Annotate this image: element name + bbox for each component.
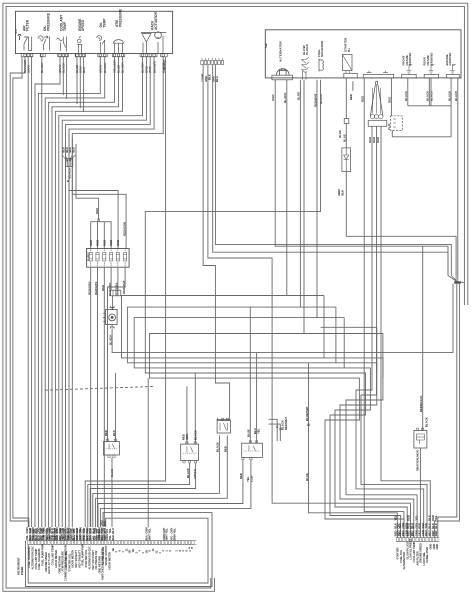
glow wire label	[297, 92, 301, 100]
svg-text:RED: RED	[95, 207, 99, 214]
wire J1 wrap labels	[99, 520, 106, 526]
connector J1 name	[17, 557, 24, 575]
svg-text:RED: RED	[271, 94, 275, 101]
svg-text:4: 4	[138, 550, 142, 552]
svg-text:RED/BLACK: RED/BLACK	[419, 396, 423, 412]
coolant temp sender label	[60, 15, 67, 31]
svg-text:BLK: BLK	[111, 535, 115, 541]
wire fuse out 6	[108, 267, 126, 295]
wire battery 4	[381, 126, 430, 537]
starter label	[344, 37, 351, 52]
svg-text:SWITCHED POWER FEED: SWITCHED POWER FEED	[101, 548, 105, 580]
wire route S3 east drop	[343, 318, 345, 368]
rack actuator black label	[162, 59, 166, 70]
wire relay A feed 1	[186, 386, 188, 444]
sensor wire color labels	[23, 60, 165, 73]
wire splice to diode	[345, 123, 347, 147]
wire coolant pin3	[66, 57, 68, 99]
wire cascade 7	[62, 57, 146, 527]
svg-text:BLUE: BLUE	[338, 130, 342, 138]
wire route S5	[150, 80, 405, 538]
starter splice label	[343, 134, 347, 142]
front frame ground plate	[402, 74, 417, 78]
wire starter plate stub	[352, 81, 354, 91]
low fuel out label	[415, 450, 419, 471]
svg-text:SPEED: SPEED	[81, 19, 85, 31]
fuse box label	[87, 252, 91, 261]
wire L-bundle down a	[276, 431, 278, 442]
engine ground symbol	[450, 65, 456, 74]
battery wire labels	[360, 95, 391, 143]
oil temp connector	[98, 53, 107, 56]
fuse input labels	[89, 240, 120, 246]
svg-text:GROUND: GROUND	[429, 53, 433, 66]
svg-text:1B: 1B	[131, 549, 135, 552]
wire key switch drop	[112, 296, 114, 310]
wire cascade 6	[59, 57, 143, 527]
svg-text:YEL: YEL	[173, 528, 177, 534]
svg-text:ALTERNATOR: ALTERNATOR	[279, 40, 283, 62]
air filter switch symbol	[18, 35, 32, 51]
wire ground bus	[408, 105, 451, 107]
wire relay D feed 1	[107, 295, 109, 442]
svg-text:YEL: YEL	[414, 515, 418, 521]
wire air filter pin0 to left rail	[13, 57, 29, 527]
svg-text:BLACK: BLACK	[162, 59, 166, 70]
svg-text:RED: RED	[116, 240, 120, 246]
connector J2 wire color labels	[393, 515, 438, 536]
svg-text:BLACK: BLACK	[319, 93, 323, 104]
wire cascade 1	[38, 57, 100, 527]
wire relay D feed 2	[115, 373, 117, 442]
wire fuse feed 1	[69, 134, 118, 249]
wire engine ground a	[450, 78, 452, 137]
wire L-bundle b	[269, 424, 281, 430]
connector J1 pin number note	[189, 546, 194, 550]
wire route S2	[127, 80, 413, 538]
wire relay A out 1	[88, 463, 190, 527]
svg-text:RED: RED	[434, 530, 438, 536]
svg-text:BLACK: BLACK	[68, 167, 72, 178]
starter symbol	[342, 55, 352, 74]
wire cascade 9	[69, 57, 154, 527]
wire relay D out	[111, 457, 113, 527]
svg-text:1B: 1B	[111, 548, 115, 551]
svg-text:RED: RED	[104, 430, 108, 436]
wire front ground	[407, 78, 409, 106]
svg-text:BLACK: BLACK	[425, 417, 429, 427]
wire relay C feed 1	[249, 307, 251, 443]
connector J1 wire color labels	[25, 527, 177, 540]
wire harness divider	[45, 386, 155, 390]
wire C2-3	[213, 65, 448, 276]
key switch face	[109, 314, 116, 321]
wire cascade 5	[55, 57, 122, 527]
wire route S1 east drop	[323, 296, 325, 358]
wire low fuel out	[419, 448, 421, 538]
svg-text:HOUR METER: HOUR METER	[108, 552, 112, 570]
svg-text:BLACK: BLACK	[194, 430, 198, 440]
wire cascade 2	[45, 57, 104, 527]
wire diode out east	[346, 172, 456, 276]
alternator label	[279, 40, 283, 62]
svg-text:RED: RED	[89, 240, 93, 246]
relay B out labels	[216, 442, 228, 452]
wire fuse feed 3	[76, 150, 99, 219]
key switch output label	[108, 334, 112, 345]
atm pressure sensor label	[115, 8, 122, 27]
relay B	[217, 418, 230, 433]
wire blue-white	[309, 363, 398, 538]
wire fuse feed 3b tail	[75, 144, 77, 150]
svg-text:GROUND: GROUND	[448, 53, 452, 66]
oil pressure switch label	[43, 12, 50, 31]
wire route S1 east branch	[287, 295, 324, 297]
svg-text:PANEL: PANEL	[20, 566, 24, 575]
svg-text:BLUE/WHT: BLUE/WHT	[305, 406, 309, 421]
svg-text:B+: B+	[347, 48, 351, 52]
svg-text:BLK: BLK	[103, 521, 107, 526]
wire L-bundle a	[269, 419, 278, 430]
connector J2 signal labels	[396, 539, 440, 570]
wire battery 1	[364, 78, 404, 538]
relay D	[104, 439, 120, 457]
svg-text:YEL: YEL	[434, 515, 438, 521]
air filter connector	[21, 53, 33, 56]
wire battery red to solenoid	[390, 78, 392, 116]
wire battery 2	[356, 126, 424, 537]
wire junction funnel	[448, 276, 458, 282]
wire route S5 east drop	[382, 334, 384, 379]
connector C2 7-pin	[201, 58, 224, 65]
engine speed sensor label	[78, 18, 85, 31]
starter splice	[344, 119, 349, 124]
air filter switch label	[22, 19, 29, 31]
starter solenoid box	[391, 116, 403, 131]
wire air filter pin2	[27, 57, 29, 527]
svg-text:WHT: WHT	[147, 534, 151, 541]
wire fuse out 4	[110, 267, 112, 290]
wire low fuel feed	[422, 246, 424, 430]
oil temp sender symbol	[97, 36, 105, 54]
alternator wire labels	[271, 92, 287, 103]
wire relay B out 1	[93, 435, 220, 527]
connector J1 signal labels	[27, 544, 192, 581]
starter base plate	[344, 73, 357, 78]
splice S1 label	[68, 167, 72, 178]
wire relay C out 2	[100, 459, 251, 527]
svg-text:ACTUATOR: ACTUATOR	[154, 11, 158, 30]
battery cells	[370, 84, 383, 119]
battery base plate	[368, 120, 387, 126]
wire cascade 4	[52, 57, 119, 527]
wire relay A out 2	[90, 463, 195, 527]
svg-text:LOW: LOW	[249, 475, 253, 482]
wire engine ground long	[457, 78, 459, 277]
svg-text:RED: RED	[224, 446, 228, 452]
wire C2-2	[208, 65, 411, 538]
wire fuse out 3	[103, 267, 105, 527]
relay D feed labels	[104, 430, 116, 436]
svg-text:BLU: BLU	[111, 528, 115, 534]
wire junction out a	[438, 283, 457, 537]
svg-text:YEL: YEL	[147, 528, 151, 534]
wire C2-1	[203, 65, 230, 418]
engine speed connector	[75, 53, 85, 56]
node B tag	[66, 180, 70, 182]
svg-text:FILTER: FILTER	[26, 19, 30, 31]
rack actuator label	[150, 11, 157, 30]
svg-text:YEL: YEL	[256, 428, 260, 434]
connector J2 pin strip	[396, 538, 439, 542]
blue-white labels	[305, 406, 309, 481]
key switch top terminal	[110, 306, 115, 310]
wire relay A feed 2	[194, 373, 196, 444]
alternator base plate	[272, 75, 293, 81]
wire route S4 east drop	[376, 327, 378, 373]
fuel solenoid symbol	[319, 59, 323, 72]
svg-text:TEMP: TEMP	[63, 21, 67, 31]
svg-text:RED: RED	[109, 240, 113, 246]
wire route S5 east branch	[304, 333, 383, 335]
wire relay C out 1	[98, 459, 243, 527]
oil pressure switch symbol	[38, 36, 50, 51]
rack actuator symbol	[141, 32, 166, 54]
wire route S4	[145, 80, 400, 538]
glow plugs symbol	[302, 57, 309, 73]
svg-text:TEMP: TEMP	[102, 18, 106, 28]
wire route S4 east branch	[321, 326, 377, 328]
svg-text:BRN: BRN	[173, 534, 177, 540]
rear frame ground plate	[424, 74, 438, 78]
front frame ground symbol	[407, 65, 413, 74]
relay C feed labels	[247, 428, 261, 437]
relay C	[242, 441, 263, 460]
svg-text:GROUND: GROUND	[408, 53, 412, 66]
svg-text:BLACK: BLACK	[216, 442, 220, 452]
node engine sensor box	[16, 11, 173, 53]
svg-text:RED: RED	[102, 240, 106, 246]
wire J1 wrap outer	[26, 513, 213, 587]
svg-text:RED/GRN: RED/GRN	[122, 222, 126, 236]
svg-text:6: 6	[168, 550, 172, 552]
wire engine speed pin1	[76, 57, 78, 104]
wire rear ground b	[430, 78, 432, 106]
junction splice	[455, 282, 461, 284]
wire route S2 east branch	[300, 306, 336, 308]
L-bundle splice	[276, 426, 281, 430]
fuel solenoid label	[317, 40, 324, 57]
node engine sensor box tag	[14, 29, 18, 33]
coolant temp connector	[58, 53, 69, 56]
svg-text:GND: GND	[435, 544, 439, 550]
wire fuse out 1	[90, 267, 92, 527]
oil temp sender label	[99, 18, 106, 28]
node engine electrical box tag	[264, 43, 268, 48]
wire key switch output	[112, 284, 453, 353]
svg-text:YEL: YEL	[393, 515, 397, 521]
key switch body	[105, 310, 117, 325]
svg-text:RED: RED	[96, 240, 100, 246]
svg-text:BLK: BLK	[341, 190, 345, 196]
relay A feed labels	[182, 430, 198, 440]
svg-text:BLK: BLK	[434, 523, 438, 529]
oil pressure connector	[40, 53, 45, 56]
wire route S3	[134, 80, 407, 538]
relay D output label	[110, 469, 114, 477]
wire route S2 east drop	[335, 307, 337, 363]
relay A output labels	[186, 468, 197, 479]
svg-text:YEL: YEL	[165, 528, 169, 534]
wire air filter pin3	[31, 57, 33, 527]
wire coolant pin2	[62, 57, 64, 95]
splice funnel	[62, 155, 75, 162]
svg-text:5-B: 5-B	[264, 43, 268, 48]
wire air filter pin1 to left rail	[10, 57, 29, 527]
svg-text:WHT: WHT	[165, 534, 169, 541]
svg-text:CONNECTOR PIN FUNCTION: CONNECTOR PIN FUNCTION	[64, 545, 68, 581]
key switch positions	[103, 313, 105, 321]
wire battery 3	[361, 126, 427, 537]
connector key switch feed	[111, 290, 121, 296]
relay A	[181, 442, 199, 463]
svg-text:SOLENOID: SOLENOID	[320, 40, 324, 57]
engine speed sensor symbol	[77, 36, 82, 53]
blue-white splice	[307, 424, 310, 426]
key switch bottom terminal	[110, 325, 115, 329]
svg-text:RED: RED	[407, 515, 411, 521]
svg-text:GRN: GRN	[185, 434, 189, 440]
wire fuse out 5	[117, 267, 119, 290]
svg-text:RED/WHT: RED/WHT	[284, 417, 288, 430]
front frame ground label	[401, 53, 412, 66]
wire starter drop	[345, 78, 347, 119]
relay C output labels	[239, 473, 253, 482]
fuse output labels	[87, 280, 125, 296]
connector C2 labels	[201, 73, 219, 82]
svg-text:BLUE: BLUE	[247, 429, 251, 437]
wire relay B out 2	[95, 435, 227, 527]
wire junction east stub	[461, 281, 465, 283]
svg-text:INSTRUMENT: INSTRUMENT	[17, 557, 21, 575]
battery plate	[363, 71, 393, 78]
wire glow feed	[303, 71, 307, 80]
ground wire labels	[404, 90, 458, 101]
wire route S3 east branch	[317, 317, 344, 319]
svg-text:PRESSURE: PRESSURE	[47, 12, 51, 31]
fuel solenoid wire labels	[313, 93, 323, 107]
rear frame ground symbol	[429, 65, 435, 74]
relay B bracket	[217, 418, 231, 420]
splice connector S1	[66, 159, 73, 167]
wire route S1	[122, 80, 418, 538]
splice fuse distribution	[97, 219, 100, 221]
starter solenoid tag	[388, 123, 391, 130]
wire relay C feed 2	[256, 353, 258, 444]
svg-text:FUSES: FUSES	[87, 252, 91, 261]
wire mid drop 148	[147, 378, 149, 527]
wire J1 wrap inner	[28, 518, 208, 583]
low fuel sensor	[414, 428, 427, 448]
rear frame ground label	[423, 53, 434, 66]
engine ground plate	[447, 74, 460, 78]
wire coolant pin1 jog	[35, 57, 60, 527]
diode wire labels	[337, 130, 344, 196]
node engine electrical box	[265, 30, 461, 78]
connector J1 pin strip	[27, 541, 196, 545]
engine ground label	[445, 53, 452, 66]
wire fuse out 2	[97, 267, 99, 527]
wire L-bundle down b	[279, 431, 281, 442]
alternator symbol	[277, 69, 290, 75]
wire junction out b	[434, 283, 459, 537]
svg-text:2 8: 2 8	[189, 546, 194, 550]
rack actuator connector	[140, 53, 157, 56]
wire oil pressure pin	[41, 57, 43, 527]
wire rear ground a	[428, 78, 430, 106]
wire cascade 3	[49, 57, 115, 527]
diode box	[342, 148, 351, 172]
wire solenoid to ground loop	[392, 130, 451, 136]
wire fuse feed 2	[72, 138, 126, 249]
wire engine speed pin2	[79, 57, 81, 108]
svg-text:PLUGS: PLUGS	[305, 44, 309, 55]
wire cascade 10	[72, 57, 163, 527]
L-bundle labels	[281, 417, 288, 430]
svg-text:RED: RED	[349, 94, 353, 100]
wire engine speed pin3	[83, 57, 85, 112]
fuse box F1-F6	[87, 249, 130, 268]
atm pressure connector	[112, 53, 124, 56]
svg-text:BLUE: BLUE	[305, 473, 309, 481]
splice cluster labels	[62, 147, 76, 153]
svg-text:PRESSURE: PRESSURE	[118, 8, 122, 27]
rack actuator connector 2	[161, 53, 168, 56]
svg-text:BLK: BLK	[112, 430, 116, 436]
atm pressure sensor symbol	[114, 40, 124, 54]
glow plugs label	[302, 44, 309, 55]
wire C2-4	[215, 65, 451, 276]
starter plate stub label	[349, 94, 353, 100]
svg-text:GRAY/SALMON: GRAY/SALMON	[415, 450, 419, 471]
low fuel feed label	[419, 396, 429, 427]
svg-text:1-4: 1-4	[14, 29, 18, 33]
coolant temp sender symbol	[57, 37, 67, 52]
wire fuse distribution fork	[91, 221, 111, 249]
fuse feed red label	[95, 207, 99, 214]
battery cone	[370, 81, 383, 116]
wire cascade 8	[66, 57, 151, 527]
wire alternator red feed	[275, 80, 448, 276]
svg-text:24-42: 24-42	[388, 123, 391, 130]
wire rack actuator black long	[85, 57, 165, 527]
fuse feed red-green label	[122, 222, 126, 236]
